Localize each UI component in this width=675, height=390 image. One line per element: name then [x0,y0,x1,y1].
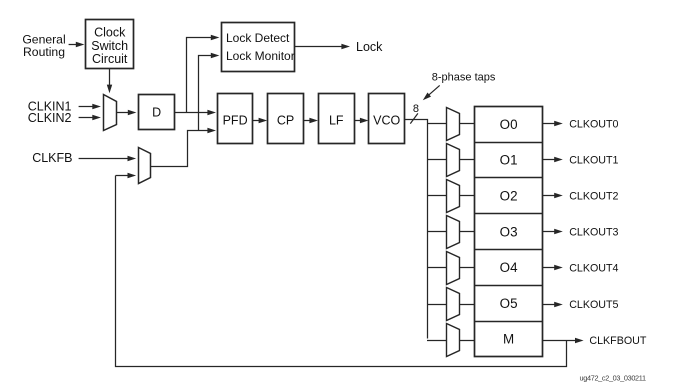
phase mux for O5 [447,288,460,321]
phase mux for O1 [447,144,460,177]
svg-text:O2: O2 [500,189,518,204]
svg-text:O3: O3 [500,224,518,239]
output counters row dividers [475,142,543,144]
wire CLKOUT1 output [542,159,554,161]
svg-text:CLKFBOUT: CLKFBOUT [589,335,646,347]
wire M mux to counter [460,340,475,342]
wire lock output [295,46,342,48]
phase mux for O4 [447,252,460,285]
svg-text:Switch: Switch [91,39,128,53]
svg-text:CLKOUT4: CLKOUT4 [569,263,618,275]
svg-text:CLKOUT3: CLKOUT3 [569,227,618,239]
wire CLKIN2 to input mux [79,117,93,119]
svg-text:8-phase taps: 8-phase taps [432,71,496,83]
bus width slash [410,113,418,123]
CP box [268,94,304,144]
svg-text:PFD: PFD [223,113,248,127]
phase mux for M [447,324,460,357]
wire CLKOUT2 output [542,195,554,197]
output counters block [475,107,543,357]
svg-text:LF: LF [329,113,344,127]
divider box D [139,95,175,130]
wire bus to M mux [427,340,446,342]
VCO box [369,94,405,144]
wire CLKOUT5 output [542,304,554,306]
wire CP to LF [303,120,310,122]
wire bus to O0 mux [427,123,446,125]
svg-text:Lock Monitor: Lock Monitor [226,49,295,63]
wire bus to O4 mux [427,267,446,269]
svg-text:8: 8 [413,103,419,115]
lock detect / lock monitor box U2 [222,23,295,72]
wire feedback return to feedback mux [116,175,129,177]
svg-text:Lock: Lock [356,40,383,54]
PFD box [218,94,253,144]
svg-text:CLKOUT1: CLKOUT1 [569,155,618,167]
svg-text:VCO: VCO [373,113,400,127]
wire D to PFD [175,112,208,114]
wire O3 mux to counter [460,231,475,233]
wire tap feedback to Lock Monitor input [199,56,212,131]
svg-text:O0: O0 [500,117,518,132]
svg-text:ug472_c2_03_030211: ug472_c2_03_030211 [580,373,646,382]
LF box [319,94,355,144]
svg-text:CLKFB: CLKFB [32,151,72,165]
wire CLKOUT4 output [542,267,554,269]
wire O2 mux to counter [460,195,475,197]
feedback mux M2 [139,148,151,184]
svg-text:Circuit: Circuit [92,52,128,66]
svg-text:O4: O4 [500,260,518,275]
wire bus to O3 mux [427,231,446,233]
wire CLKOUT3 output [542,231,554,233]
phase mux for O3 [447,216,460,249]
svg-text:CP: CP [277,113,294,127]
wire M counter to CLKFBOUT [542,340,575,342]
svg-text:CLKOUT5: CLKOUT5 [569,299,618,311]
wire O4 mux to counter [460,267,475,269]
svg-text:General: General [22,32,65,46]
wire O0 mux to counter [460,123,475,125]
svg-text:CLKOUT2: CLKOUT2 [569,191,618,203]
input mux M1 [104,95,117,131]
svg-text:CLKOUT0: CLKOUT0 [569,119,618,131]
wire PFD to CP [253,120,260,122]
clock switch circuit box U1 [86,20,134,69]
svg-text:Clock: Clock [94,25,126,39]
wire LF to VCO [354,120,360,122]
wire O5 mux to counter [460,304,475,306]
wire VCO output 8-phase bus [405,120,428,339]
wire CLKIN1 to input mux [79,106,93,108]
wire bus to O2 mux [427,195,446,197]
callout arrow 8-phase taps to bus [428,85,439,95]
svg-text:O1: O1 [500,153,518,168]
svg-text:D: D [152,106,161,120]
svg-text:O5: O5 [500,296,518,311]
phase mux for O0 [447,108,460,141]
wire input mux to D divider [116,112,128,114]
svg-text:Lock Detect: Lock Detect [226,31,290,45]
wire CLKFB to feedback mux [79,158,129,160]
phase mux for O2 [447,180,460,213]
wire bus to O1 mux [427,159,446,161]
svg-text:Routing: Routing [23,45,65,59]
wire feedback path CLKFBOUT to feedback mux [116,176,567,367]
wire Clock Switch Circuit to input mux [109,69,111,85]
wire bus to O5 mux [427,304,446,306]
wire CLKOUT0 output [542,123,554,125]
wire O1 mux to counter [460,159,475,161]
wire General Routing to Clock Switch Circuit [69,44,77,46]
svg-text:CLKIN2: CLKIN2 [28,111,72,125]
svg-text:M: M [503,332,514,347]
wire tap D-output to Lock Detect input [187,38,212,113]
wire feedback mux to PFD [151,131,208,167]
